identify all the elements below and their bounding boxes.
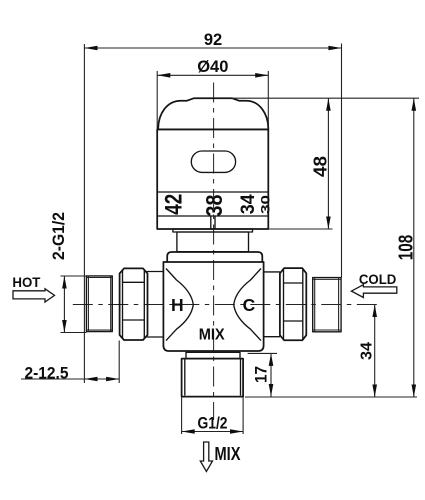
svg-text:108: 108 xyxy=(396,235,418,261)
knob dome base line xyxy=(157,128,268,130)
bonnet flange xyxy=(167,252,262,262)
dimension 92 xyxy=(84,31,341,383)
center line horizontal xyxy=(73,304,380,306)
svg-text:G1/2: G1/2 xyxy=(198,414,228,433)
bonnet body xyxy=(177,232,249,252)
svg-text:H: H xyxy=(171,295,184,315)
knob scale band top line xyxy=(157,191,268,193)
right tailpiece xyxy=(264,271,281,273)
dimension 2-G1/2 xyxy=(49,212,86,333)
svg-text:34: 34 xyxy=(238,194,259,214)
svg-text:MIX: MIX xyxy=(199,327,225,344)
svg-text:MIX: MIX xyxy=(215,444,241,464)
knob body xyxy=(157,129,268,229)
body casting curve left xyxy=(166,269,193,341)
left hex nut xyxy=(120,268,148,340)
outlet pipe xyxy=(182,359,244,397)
bonnet lip xyxy=(173,229,253,232)
svg-text:38: 38 xyxy=(201,194,227,216)
svg-text:42: 42 xyxy=(161,194,188,215)
body casting curve right xyxy=(234,269,261,341)
valve body xyxy=(163,262,263,351)
mix outlet flow arrow xyxy=(200,442,212,472)
right hex nut xyxy=(280,268,306,340)
svg-text:92: 92 xyxy=(204,31,222,49)
svg-text:HOT: HOT xyxy=(12,274,40,290)
knob pointer mark xyxy=(210,216,212,229)
svg-text:34: 34 xyxy=(359,342,376,360)
svg-text:48: 48 xyxy=(311,156,331,177)
hot flow arrow xyxy=(13,289,55,302)
dimension G1/2 outlet xyxy=(182,397,244,434)
svg-text:30: 30 xyxy=(260,195,273,214)
left threaded connector G1/2 xyxy=(86,276,112,332)
svg-text:17: 17 xyxy=(252,366,271,383)
dimension Ø40 xyxy=(157,58,268,129)
svg-text:COLD: COLD xyxy=(359,271,397,287)
svg-text:2-G1/2: 2-G1/2 xyxy=(49,212,68,260)
dimension 34 xyxy=(359,305,377,398)
knob scale band bottom line xyxy=(157,215,268,217)
svg-text:2-12.5: 2-12.5 xyxy=(25,364,69,382)
center line vertical xyxy=(213,83,215,421)
left tailpiece xyxy=(147,271,164,273)
dimension 17 xyxy=(248,353,277,396)
svg-text:Ø40: Ø40 xyxy=(197,58,228,76)
cold flow arrow xyxy=(351,285,396,298)
right threaded connector G1/2 xyxy=(313,278,341,332)
dimension 2-12.5 xyxy=(21,341,119,384)
outlet collar xyxy=(186,352,240,358)
svg-text:C: C xyxy=(243,295,256,315)
dimension 48 xyxy=(232,98,419,229)
dimension 108 xyxy=(245,98,418,397)
knob dome xyxy=(158,98,268,129)
knob oval grip xyxy=(191,151,235,172)
